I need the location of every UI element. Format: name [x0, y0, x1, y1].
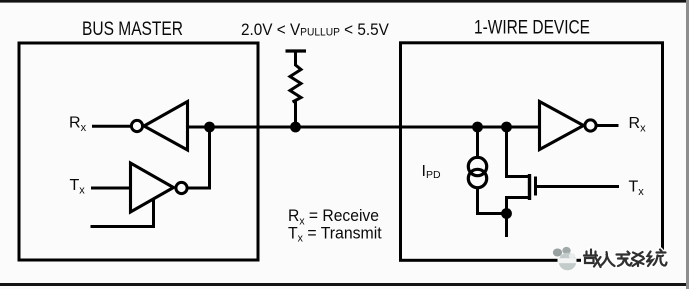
- wire current source to source node: [478, 187, 507, 214]
- resistor Rpullup zigzag: [290, 65, 301, 102]
- junction bus-master output node: [204, 122, 215, 133]
- svg-text:BUS MASTER: BUS MASTER: [82, 19, 183, 40]
- transistor Q1 drain wire: [507, 127, 530, 177]
- svg-text:Tx = Transmit: Tx = Transmit: [288, 224, 382, 245]
- transistor Q1 gate bar: [534, 177, 537, 196]
- legend Tx = Transmit: [288, 224, 382, 245]
- junction pull-up node on bus: [290, 122, 301, 133]
- BUS MASTER box: [19, 43, 258, 260]
- wire terminal to resistor: [294, 51, 297, 66]
- power terminal bar (Vpullup): [286, 49, 307, 52]
- transistor Q1 channel bar: [528, 174, 531, 200]
- watermark logo: [553, 247, 577, 270]
- wire Tx to buffer input: [91, 187, 131, 190]
- svg-text:IPD: IPD: [422, 163, 441, 181]
- svg-text:Rx: Rx: [69, 115, 87, 134]
- wire Tx buffer enable stub: [91, 198, 154, 227]
- top border bar: [0, 0, 689, 3]
- svg-text:1-WIRE DEVICE: 1-WIRE DEVICE: [474, 18, 590, 39]
- op-amp: bus-master Rx inverter bubble: [131, 120, 142, 131]
- wire main 1-wire bus: [188, 126, 540, 129]
- wire junction down to Tx buffer output: [208, 127, 211, 188]
- op-amp: bus-master Rx inverter triangle (points left): [144, 102, 188, 151]
- current source IPD circle 2: [468, 169, 486, 187]
- op-amp: device Rx buffer output bubble: [585, 120, 596, 131]
- transistor Q1 source wire: [507, 198, 530, 214]
- legend Rx = Receive: [288, 207, 379, 228]
- watermark text 嵌入式系统 (stroke approximation): [581, 250, 670, 268]
- current source IPD circle 1: [468, 157, 486, 175]
- svg-text:Tx: Tx: [629, 179, 645, 198]
- op-amp: bus-master Tx buffer triangle (points right): [131, 163, 174, 212]
- wire buffer bubble to vertical junction wire: [187, 187, 211, 190]
- wire gate to Tx label: [536, 185, 620, 188]
- svg-text:Tx: Tx: [70, 177, 86, 196]
- junction mosfet drain tap: [501, 122, 512, 133]
- bottom border bar: [0, 283, 689, 286]
- wire bus to current source: [476, 127, 479, 159]
- junction current-source tap: [472, 122, 483, 133]
- 1-WIRE DEVICE box: [401, 43, 663, 260]
- wire resistor to bus: [294, 101, 297, 127]
- right gray border: [686, 0, 689, 289]
- svg-text:Rx: Rx: [629, 115, 647, 134]
- op-amp: 1-wire device Rx buffer triangle: [540, 102, 584, 150]
- op-amp: bus-master Tx buffer output bubble: [176, 182, 187, 193]
- wire bubble to Rx label: [596, 124, 619, 127]
- junction source node: [501, 208, 512, 219]
- svg-text:2.0V < VPULLUP < 5.5V: 2.0V < VPULLUP < 5.5V: [241, 21, 389, 39]
- wire Rx to inverter bubble: [92, 125, 131, 128]
- label 2.0V < VPULLUP < 5.5V: [241, 21, 389, 39]
- wire source stub down: [505, 214, 508, 238]
